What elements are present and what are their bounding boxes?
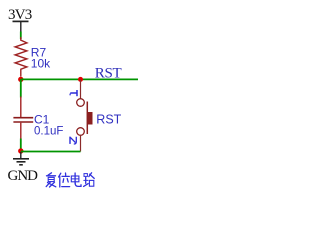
svg-text:RST: RST <box>96 113 121 127</box>
glyph 路 <box>84 173 95 187</box>
svg-text:0.1uF: 0.1uF <box>34 126 63 138</box>
wire down to C1 <box>20 79 22 97</box>
node junction left-top <box>18 77 23 82</box>
node junction switch-top <box>78 77 83 82</box>
svg-text:GND: GND <box>8 168 39 184</box>
wire horizontal RST net <box>21 78 138 80</box>
pin number 2 <box>70 137 76 144</box>
glyph 电 <box>71 173 81 186</box>
push-button switch SW (RST) <box>77 99 93 136</box>
glyph 复 <box>46 173 56 187</box>
svg-text:C1: C1 <box>34 113 50 127</box>
power port 3V3 <box>8 7 32 32</box>
push-button switch pin 1 <box>80 79 82 98</box>
capacitor C1 <box>13 97 33 140</box>
resistor R7 <box>15 37 27 77</box>
wire bottom horizontal <box>21 151 81 153</box>
ground GND <box>8 152 39 184</box>
node junction bottom-left <box>18 148 23 153</box>
svg-text:10k: 10k <box>31 56 51 70</box>
svg-text:3V3: 3V3 <box>8 7 32 23</box>
wire 3V3 to R7 <box>20 32 22 40</box>
push-button switch pin 2 <box>80 135 82 152</box>
wire C1 to ground node <box>20 139 22 152</box>
glyph 位 <box>59 173 70 187</box>
title 复位电路 (hand-drawn glyphs) <box>46 173 94 187</box>
pin number 1 <box>70 90 77 96</box>
svg-text:RST: RST <box>95 65 122 81</box>
